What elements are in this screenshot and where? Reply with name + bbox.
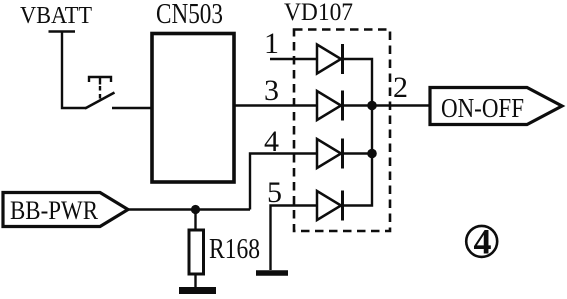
svg-text:CN503: CN503 xyxy=(156,0,223,30)
net flag BB-PWR xyxy=(3,193,128,227)
svg-text:3: 3 xyxy=(264,74,279,107)
wire R168 bottom lead xyxy=(194,274,196,288)
junction dot BB-PWR/R168 xyxy=(191,205,200,214)
diode D1 xyxy=(317,44,343,74)
wire pin 5 to ground xyxy=(271,206,318,271)
svg-text:1: 1 xyxy=(264,27,279,60)
diode array VD107 dashed box xyxy=(294,30,390,232)
connector CN503 xyxy=(152,34,234,183)
cathode bus wire xyxy=(343,59,373,206)
diode D2 xyxy=(317,91,343,121)
diode D4 xyxy=(317,191,343,221)
wire net 2 to flag xyxy=(372,104,430,106)
switch S1 pushbutton actuator xyxy=(89,77,111,82)
svg-text:BB-PWR: BB-PWR xyxy=(10,196,99,225)
svg-text:VD107: VD107 xyxy=(284,0,353,26)
svg-text:R168: R168 xyxy=(209,234,260,265)
resistor R168 xyxy=(189,230,204,274)
power rail bar xyxy=(49,30,76,33)
wire BB-PWR to net 4 riser xyxy=(128,208,250,210)
svg-text:4: 4 xyxy=(474,222,492,262)
wire net 4 riser and pin 4 line xyxy=(250,154,317,210)
wire CN503 to diode D2 (net 3) xyxy=(235,104,317,106)
ground under pin 5 xyxy=(256,270,288,276)
page number circled 4 xyxy=(466,226,497,257)
wire switch to CN503 xyxy=(112,107,151,109)
svg-text:VBATT: VBATT xyxy=(20,3,92,29)
diode D3 xyxy=(317,139,343,169)
wire VBATT to switch xyxy=(62,32,86,109)
wire D2 cathode to bus xyxy=(343,104,373,106)
net flag ON-OFF xyxy=(430,88,562,125)
svg-text:2: 2 xyxy=(393,71,408,104)
junction dot bus/net2 xyxy=(367,101,377,111)
svg-text:ON-OFF: ON-OFF xyxy=(441,93,524,123)
switch S1 blade xyxy=(85,93,115,109)
pin 1 stub wire xyxy=(270,58,317,60)
svg-text:5: 5 xyxy=(267,176,282,209)
junction dot bus/D3 xyxy=(367,149,377,159)
ground under R168 xyxy=(179,287,216,294)
wire D3 cathode to bus xyxy=(343,152,373,154)
wire R168 top lead xyxy=(194,210,196,231)
